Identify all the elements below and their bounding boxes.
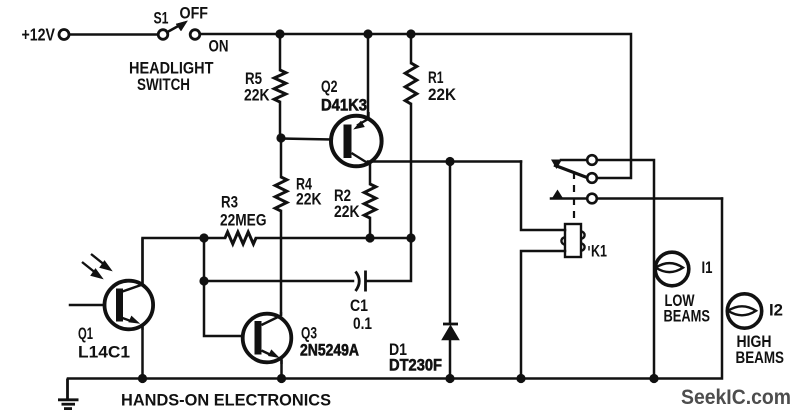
wire relay coil top feed: [521, 162, 565, 231]
svg-text:OFF: OFF: [180, 5, 209, 23]
wire C1 left lead: [204, 280, 353, 283]
junction R5 top rail: [275, 29, 284, 38]
junction R2 bottom: [365, 233, 374, 242]
relay dashed actuator line: [573, 172, 575, 224]
wire contact3 stub: [551, 197, 588, 200]
wire Q2 base node to R4: [280, 138, 283, 177]
wire R1 top lead: [410, 34, 413, 63]
wire R1 bottom down to node line: [410, 104, 413, 238]
resistor R1: [405, 63, 417, 104]
svg-text:K1: K1: [591, 242, 607, 260]
junction K1 bottom rail: [516, 374, 525, 383]
junction R1 bottom: [406, 233, 415, 242]
svg-text:0.1: 0.1: [353, 315, 372, 333]
Q1 light arrows: [82, 254, 112, 279]
junction node A left: [199, 233, 208, 242]
junction C1 left node: [199, 276, 208, 285]
transistor Q1: [105, 238, 154, 330]
relay contact 1: [587, 155, 597, 165]
wire S1 to top-right corner down to relay middle contact: [200, 34, 631, 178]
lamp I1: [655, 252, 689, 286]
svg-text:C1: C1: [350, 297, 368, 315]
resistor R5: [274, 70, 286, 102]
relay movable arm: [554, 165, 587, 178]
diode D1: [443, 324, 459, 340]
ground: [58, 379, 79, 409]
svg-text:22K: 22K: [296, 191, 322, 209]
terminal +12V: [59, 30, 69, 40]
wire Q1 emitter to ground rail: [141, 326, 144, 379]
relay coil K1: [561, 224, 584, 257]
resistor R4: [275, 177, 287, 211]
svg-text:HANDS-ON ELECTRONICS: HANDS-ON ELECTRONICS: [121, 391, 331, 410]
wire R5 top lead: [279, 34, 282, 70]
switch S1 arm arrow: [167, 21, 188, 33]
wire +12V to S1: [69, 33, 158, 36]
wire R5 bottom to Q2 base node: [279, 102, 282, 138]
relay lower anchor triangle: [552, 190, 564, 200]
svg-text:22K: 22K: [334, 203, 360, 221]
wire D1 column bottom: [449, 340, 452, 379]
svg-text:ON: ON: [209, 37, 229, 55]
svg-text:I1: I1: [702, 259, 713, 277]
svg-text:22K: 22K: [244, 87, 270, 105]
wire relay contact1 to lamp I1: [597, 160, 654, 379]
lamp I2: [727, 294, 761, 328]
svg-text:I2: I2: [769, 301, 783, 319]
wire D1 column top: [449, 162, 452, 324]
ground rail: [68, 199, 722, 379]
svg-text:22MEG: 22MEG: [220, 212, 267, 230]
wire Q2 collector column to top rail: [367, 34, 370, 118]
svg-text:SWITCH: SWITCH: [137, 76, 190, 94]
junction Q2 emitter top rail: [363, 29, 372, 38]
wire R2 bottom lead: [369, 218, 372, 238]
wire R2 top lead: [369, 163, 372, 184]
junction Q2 base node: [276, 133, 285, 142]
wire R4 bottom down to Q3 collector: [280, 211, 283, 315]
tick before K1: [588, 246, 590, 251]
wire node line y238 right segment: [256, 237, 411, 240]
wire Q2 base: [281, 139, 331, 140]
svg-text:DT230F: DT230F: [389, 355, 442, 374]
svg-text:BEAMS: BEAMS: [736, 349, 785, 367]
svg-text:BEAMS: BEAMS: [664, 307, 711, 325]
wire node line y238 left segment with Q1 collector riser: [143, 238, 226, 284]
relay contact 3: [587, 194, 597, 204]
transistor Q3: [243, 312, 292, 364]
svg-text:R3: R3: [221, 194, 238, 212]
svg-text:Q1: Q1: [78, 325, 93, 343]
switch S1 pole: [158, 30, 168, 40]
svg-text:S1: S1: [154, 9, 169, 27]
wire Q2 emitter to relay-drive node: [368, 160, 521, 163]
svg-text:R5: R5: [245, 70, 262, 88]
switch S1 throw: [190, 30, 200, 40]
junction lamp I1 rail: [649, 374, 658, 383]
svg-text:2N5249A: 2N5249A: [300, 340, 359, 359]
wire C1 right lead up to node: [366, 238, 411, 281]
junction Q3 emitter rail: [277, 374, 286, 383]
svg-text:HEADLIGHT: HEADLIGHT: [129, 59, 214, 77]
capacitor C1: [356, 271, 366, 292]
transistor Q2: [331, 112, 382, 166]
svg-text:+12V: +12V: [22, 25, 56, 45]
wire Q3 emitter to ground rail: [280, 360, 283, 379]
svg-text:SeekIC.com: SeekIC.com: [681, 386, 791, 409]
svg-text:L14C1: L14C1: [78, 343, 130, 361]
wire node column x204 to Q3 base: [204, 238, 241, 336]
wire relay contact3 to lamp I2: [597, 197, 722, 200]
resistor R2: [364, 184, 376, 218]
wire relay coil bottom to ground rail: [521, 251, 565, 379]
relay contact 2: [587, 173, 597, 183]
svg-text:22K: 22K: [428, 86, 456, 104]
junction R1 top rail: [406, 29, 415, 38]
svg-text:D41K3: D41K3: [321, 95, 367, 114]
svg-text:R1: R1: [428, 69, 444, 87]
junction D1 top / relay drive: [445, 157, 454, 166]
relay arm anchor triangle: [551, 160, 562, 170]
junction D1 bottom rail: [445, 374, 454, 383]
resistor R3: [225, 232, 256, 244]
junction Q1 emitter rail: [138, 374, 147, 383]
wire Q1 base lead: [70, 304, 104, 307]
wire contact arm anchor to contact1: [561, 159, 588, 162]
svg-text:Q2: Q2: [321, 78, 338, 96]
